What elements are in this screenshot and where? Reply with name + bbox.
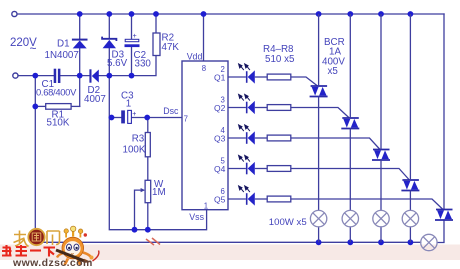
wire lamp5 right to triac5 bbox=[437, 220, 444, 243]
terminal upper bbox=[12, 11, 17, 16]
potentiometer W bbox=[141, 180, 151, 202]
wire right edge down to triac5 bbox=[443, 14, 445, 210]
svg-text:Q1: Q1 bbox=[214, 72, 226, 82]
wire channel 2 vertical bbox=[349, 14, 351, 242]
svg-text:1M: 1M bbox=[152, 187, 166, 198]
svg-text:1N4007: 1N4007 bbox=[45, 50, 79, 61]
capacitor C3 bbox=[121, 110, 136, 123]
LED arrows Q5 bbox=[239, 186, 250, 192]
wire C2 bottom bbox=[131, 47, 133, 76]
triac BCR5 bbox=[435, 210, 453, 221]
svg-text:0.68/400V: 0.68/400V bbox=[36, 87, 77, 98]
svg-text:47K: 47K bbox=[162, 42, 180, 53]
svg-text:1: 1 bbox=[126, 99, 131, 110]
svg-text:Dsc: Dsc bbox=[163, 106, 179, 116]
wire D2 anode to DC common bbox=[99, 56, 156, 76]
resistor R1 bbox=[46, 104, 71, 110]
zener D3 bbox=[102, 37, 116, 49]
svg-text:Q3: Q3 bbox=[214, 133, 226, 143]
svg-text:x5: x5 bbox=[328, 66, 339, 77]
wire Vdd bbox=[203, 14, 205, 61]
op IC U1 box bbox=[182, 61, 228, 210]
wire neutral vertical bbox=[34, 76, 36, 243]
svg-text:100W x5: 100W x5 bbox=[269, 217, 307, 228]
LED arrows Q4 bbox=[239, 155, 250, 161]
lamp L4 bbox=[402, 210, 418, 226]
LED arrows Q3 bbox=[239, 125, 250, 131]
wire C3 left bbox=[109, 117, 121, 119]
resistor R6 bbox=[267, 135, 291, 141]
svg-text:1: 1 bbox=[204, 202, 208, 211]
LED D6 bbox=[246, 131, 255, 144]
diode D2 bbox=[89, 69, 98, 82]
label C3 bbox=[121, 90, 134, 109]
capacitor C2 bbox=[125, 33, 140, 47]
wire row Q4 bbox=[228, 169, 409, 181]
svg-text:Q5: Q5 bbox=[214, 194, 226, 204]
label R1 bbox=[47, 110, 70, 129]
label D2 bbox=[84, 85, 106, 105]
wire lamp return rail bbox=[35, 241, 420, 243]
wire R3 to W bbox=[147, 157, 149, 181]
svg-text:100K: 100K bbox=[123, 145, 146, 156]
wire lower AC feed bbox=[18, 75, 54, 77]
resistor R7 bbox=[267, 166, 291, 172]
wire D1 top bbox=[79, 14, 81, 40]
resistor R2 bbox=[153, 33, 160, 56]
wire W wiper bbox=[135, 190, 144, 230]
label W bbox=[152, 179, 166, 198]
wire row Q2 bbox=[228, 108, 349, 119]
resistor R5 bbox=[267, 105, 291, 111]
terminal lower bbox=[13, 73, 18, 78]
label C1 bbox=[36, 79, 77, 98]
triac BCR4 bbox=[401, 180, 419, 191]
triac BCR2 bbox=[341, 118, 359, 129]
wire channel 4 vertical bbox=[409, 14, 411, 242]
label C2 bbox=[134, 50, 152, 69]
svg-text:www.dzsc.com: www.dzsc.com bbox=[12, 257, 93, 269]
LED D5 bbox=[246, 101, 255, 114]
LED arrows Q1 bbox=[239, 64, 250, 70]
wire DC common vertical bbox=[109, 48, 206, 229]
watermark bbox=[2, 226, 160, 269]
svg-text:Q2: Q2 bbox=[214, 103, 226, 113]
svg-text:R3: R3 bbox=[132, 134, 145, 145]
svg-text:510K: 510K bbox=[47, 118, 70, 129]
resistor R8 bbox=[267, 196, 291, 202]
label BCR bbox=[322, 37, 345, 77]
lamp L3 bbox=[373, 210, 389, 226]
label D1 bbox=[45, 39, 79, 62]
wire R3 top bbox=[147, 118, 149, 133]
wire C2 top bbox=[131, 14, 133, 39]
wire row Q1 bbox=[228, 77, 318, 86]
wire R1 left bbox=[35, 105, 45, 107]
wire C3 right to pin7 bbox=[131, 117, 182, 119]
svg-text:4007: 4007 bbox=[84, 94, 106, 105]
wire C1 to node A bbox=[60, 75, 89, 77]
triac BCR3 bbox=[372, 150, 390, 161]
wire R1 right bbox=[71, 105, 80, 107]
LED D4 bbox=[246, 70, 255, 83]
label R4-R8 bbox=[263, 44, 295, 65]
wire row Q5 bbox=[228, 199, 443, 210]
triac BCR1 bbox=[310, 86, 328, 97]
svg-text:D1: D1 bbox=[57, 39, 70, 50]
wire channel 1 vertical bbox=[318, 14, 320, 242]
LED D8 bbox=[246, 192, 255, 205]
label D3 bbox=[107, 50, 128, 70]
svg-text:+: + bbox=[132, 111, 136, 118]
wire D1 anode down bbox=[79, 48, 81, 106]
pink band bbox=[0, 245, 460, 261]
svg-text:Q4: Q4 bbox=[214, 164, 226, 174]
wire R2 top bbox=[155, 14, 157, 33]
svg-text:+: + bbox=[133, 33, 137, 40]
wire row Q3 bbox=[228, 138, 380, 150]
label 220V bbox=[10, 37, 37, 56]
LED arrows Q2 bbox=[239, 94, 250, 100]
lamp L2 bbox=[342, 210, 358, 226]
wire channel 3 vertical bbox=[380, 14, 382, 242]
lamp L5 bbox=[421, 234, 437, 250]
lamp L1 bbox=[310, 210, 326, 226]
svg-text:5.6V: 5.6V bbox=[107, 58, 128, 69]
resistor R4 bbox=[267, 74, 291, 80]
svg-text:8: 8 bbox=[202, 64, 206, 73]
svg-text:510 x5: 510 x5 bbox=[265, 54, 295, 65]
diode D1 bbox=[72, 40, 88, 49]
label R2 bbox=[162, 33, 180, 54]
svg-text:Vdd: Vdd bbox=[187, 51, 203, 61]
svg-text:7: 7 bbox=[184, 115, 188, 124]
svg-text:330: 330 bbox=[135, 59, 152, 70]
svg-text:Vss: Vss bbox=[189, 212, 204, 222]
wire top rail bbox=[17, 13, 444, 15]
wire D3 top bbox=[108, 14, 110, 39]
LED D7 bbox=[246, 162, 255, 175]
resistor R3 bbox=[145, 133, 150, 157]
label R3 bbox=[123, 134, 146, 156]
svg-text:~: ~ bbox=[30, 42, 37, 56]
capacitor C1 bbox=[54, 69, 61, 83]
wire W bottom bbox=[147, 203, 149, 230]
